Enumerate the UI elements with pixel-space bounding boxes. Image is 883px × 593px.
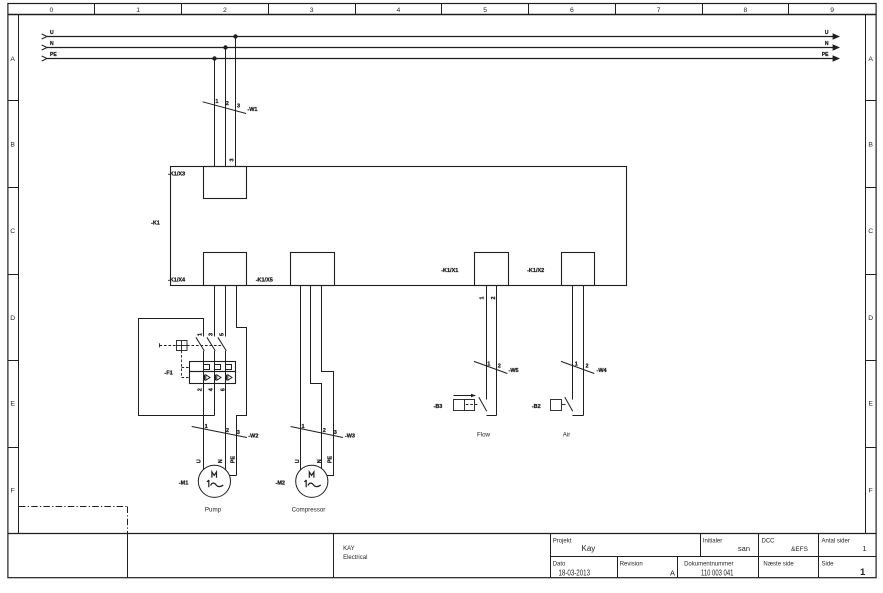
svg-text:1: 1 [215,99,218,105]
svg-text:9: 9 [830,7,834,14]
svg-text:2: 2 [226,428,229,434]
svg-text:Antal sider: Antal sider [822,539,850,545]
svg-text:6: 6 [570,7,574,14]
svg-text:A: A [670,568,675,577]
svg-text:0: 0 [50,7,54,14]
svg-text:-W5: -W5 [509,368,519,374]
svg-text:PE: PE [50,52,57,58]
svg-text:2: 2 [323,428,326,434]
svg-text:E: E [868,401,873,408]
svg-text:F: F [869,488,873,495]
svg-text:3: 3 [334,430,337,436]
svg-text:-W2: -W2 [248,434,258,440]
svg-text:2: 2 [223,7,227,14]
svg-text:1: 1 [205,424,208,430]
svg-text:Kay: Kay [582,544,596,553]
svg-text:3: 3 [230,158,236,161]
svg-text:U: U [197,459,203,463]
svg-text:4: 4 [208,387,214,391]
svg-text:PE: PE [327,456,333,464]
svg-text:Electrical: Electrical [343,555,367,561]
svg-text:U: U [825,30,829,36]
svg-text:DCC: DCC [762,539,776,545]
svg-text:N: N [825,41,829,47]
svg-text:san: san [738,544,750,553]
svg-text:Projekt: Projekt [553,539,572,545]
svg-text:PE: PE [822,52,829,58]
svg-text:2: 2 [226,101,229,107]
svg-text:-W4: -W4 [597,368,608,374]
svg-text:Air: Air [563,431,571,438]
svg-text:4: 4 [397,7,401,14]
svg-text:2: 2 [491,296,497,299]
svg-text:Næste side: Næste side [763,562,794,568]
svg-text:B: B [868,142,873,149]
svg-text:N: N [218,459,224,463]
svg-text:N: N [317,459,323,463]
svg-text:&EFS: &EFS [791,546,809,553]
svg-text:C: C [868,228,873,235]
svg-text:1: 1 [487,361,490,367]
svg-text:3: 3 [237,430,240,436]
svg-text:-B2: -B2 [532,404,541,410]
svg-text:Pump: Pump [205,507,222,514]
svg-text:-K1/X4: -K1/X4 [168,278,186,284]
svg-text:-F1: -F1 [164,371,172,377]
svg-text:Dato: Dato [553,562,566,568]
svg-text:PE: PE [230,456,236,464]
svg-text:2: 2 [498,364,501,370]
svg-text:1: 1 [860,567,866,578]
svg-text:N: N [50,41,54,47]
svg-text:1: 1 [862,544,866,553]
svg-text:6: 6 [221,388,227,391]
svg-text:KAY: KAY [343,546,355,552]
svg-text:U: U [295,459,301,463]
svg-text:1: 1 [302,424,305,430]
svg-text:8: 8 [744,7,748,14]
svg-text:2: 2 [198,388,204,391]
svg-text:-K1: -K1 [151,221,160,227]
svg-text:-B3: -B3 [434,404,443,410]
svg-text:3: 3 [310,7,314,14]
svg-text:-W1: -W1 [247,107,257,113]
svg-text:F: F [11,488,15,495]
svg-text:18-03-2013: 18-03-2013 [559,569,591,578]
svg-text:Side: Side [822,562,835,568]
svg-text:D: D [868,315,873,322]
svg-text:Revision: Revision [620,562,643,568]
svg-text:5: 5 [219,333,225,336]
svg-text:3: 3 [208,333,214,336]
svg-text:5: 5 [483,7,487,14]
svg-text:A: A [868,56,873,63]
svg-text:1: 1 [575,361,578,367]
svg-text:U: U [50,30,54,36]
svg-text:1: 1 [480,296,486,299]
svg-text:B: B [10,142,15,149]
svg-text:7: 7 [657,7,661,14]
svg-text:C: C [10,228,15,235]
svg-text:3: 3 [237,103,240,109]
svg-text:110 003 041: 110 003 041 [701,569,733,578]
svg-text:Compressor: Compressor [292,507,326,514]
svg-text:-M2: -M2 [276,480,285,486]
svg-text:-K1/X3: -K1/X3 [168,171,185,177]
svg-text:-K1/X1: -K1/X1 [441,268,458,274]
svg-text:E: E [10,401,15,408]
svg-text:1: 1 [198,333,204,336]
svg-text:D: D [10,315,15,322]
svg-text:-M1: -M1 [179,480,188,486]
svg-text:-W3: -W3 [345,434,355,440]
svg-text:-K1/X5: -K1/X5 [256,278,273,284]
svg-text:Flow: Flow [477,431,491,438]
svg-text:Dokumentnummer: Dokumentnummer [684,562,733,568]
svg-text:1: 1 [136,7,140,14]
svg-text:Initialer: Initialer [703,539,722,545]
svg-text:-K1/X2: -K1/X2 [527,268,544,274]
svg-text:2: 2 [586,364,589,370]
svg-text:A: A [10,56,15,63]
